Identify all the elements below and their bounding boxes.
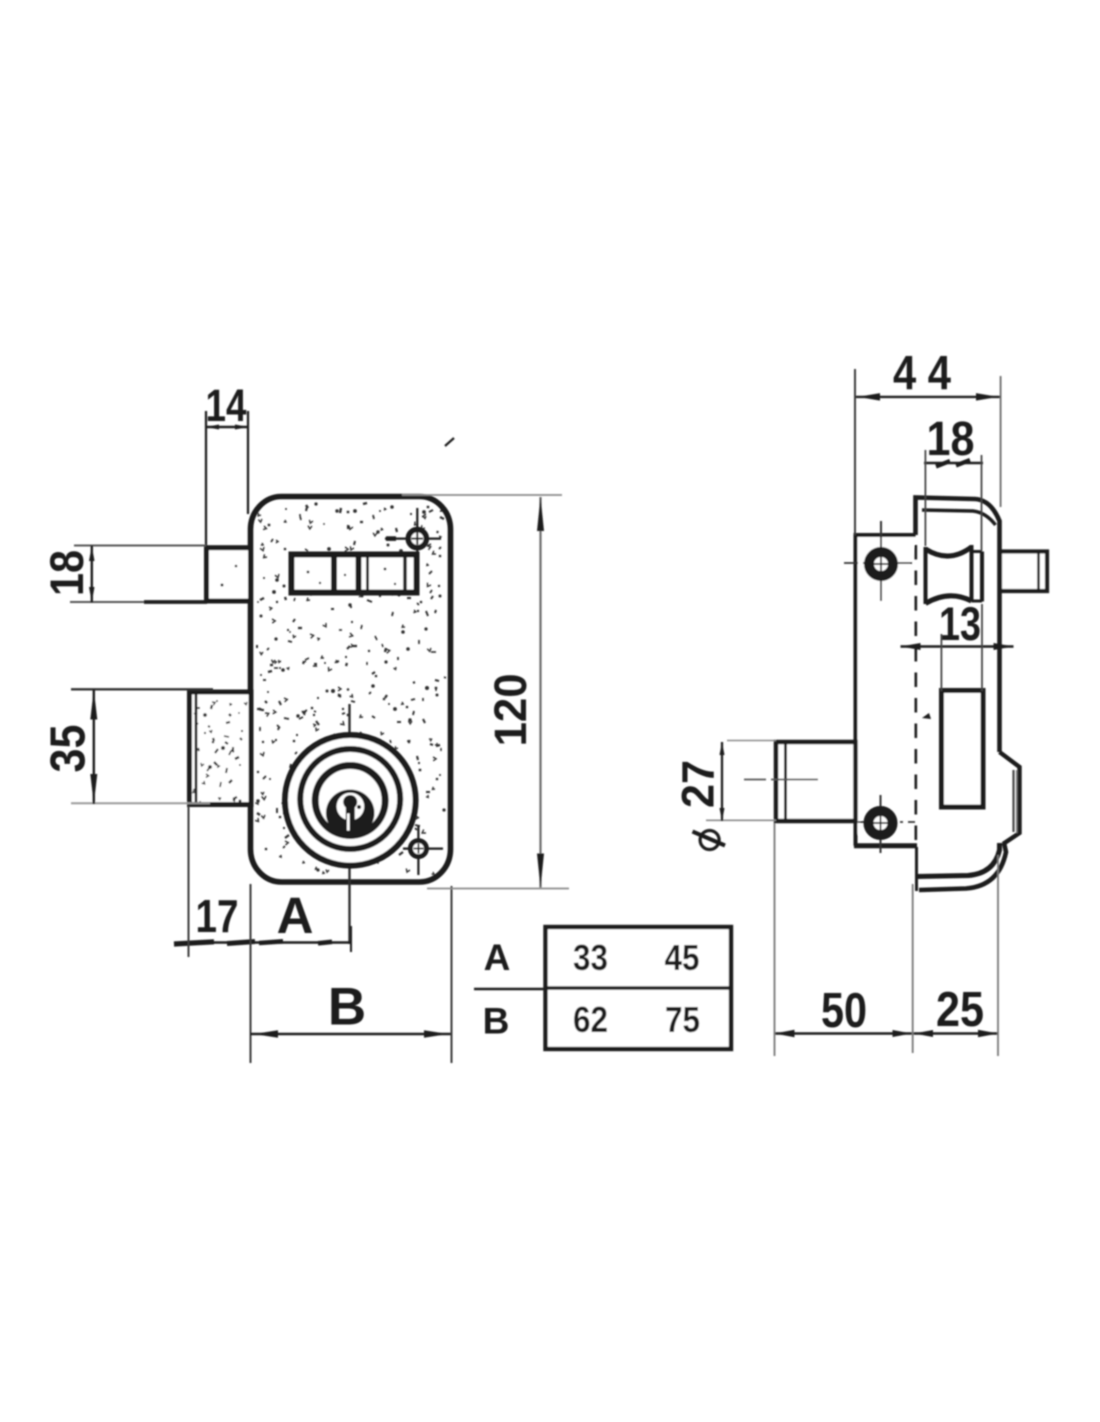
slot divider 2 [356, 555, 362, 592]
dimension 25 extension right [997, 855, 999, 1056]
dimension 50 extension left [774, 823, 776, 1056]
dimension 120 extension top [402, 494, 562, 496]
deadbolt protrusion (35 high) [190, 692, 252, 805]
shared extension line left of B [250, 884, 252, 1063]
svg-text:25: 25 [936, 983, 984, 1037]
latch bolt side view [1000, 552, 1047, 592]
svg-text:18: 18 [927, 413, 975, 466]
svg-text:B: B [328, 978, 366, 1037]
bottom screw side view [869, 811, 893, 835]
dimension 120 line [539, 497, 541, 888]
svg-text:14: 14 [206, 380, 247, 431]
mounting plate side view [856, 535, 916, 846]
keyhole dark disc [326, 790, 375, 837]
dimension 18 left: extension lines [74, 545, 206, 547]
spring latch bump on case [1000, 752, 1020, 844]
svg-text:33: 33 [573, 937, 608, 978]
dimension 13 extensions [940, 634, 942, 691]
cylinder middle circle [300, 749, 400, 849]
dashed center line of case [914, 545, 917, 843]
case left edge below plate [915, 847, 918, 891]
svg-text:4 4: 4 4 [893, 348, 951, 401]
dimension 14 line [206, 426, 248, 429]
dimension 120 extension bottom [427, 888, 569, 890]
key follower (spool) left edge [924, 547, 928, 604]
small mark near dashed line [922, 713, 931, 719]
svg-text:50: 50 [821, 984, 867, 1038]
bottom screw front view [403, 847, 443, 849]
dimension 50/25 line [775, 1032, 999, 1034]
svg-text:27: 27 [673, 760, 724, 808]
cylinder rosette circle [315, 766, 385, 836]
dimension 27 extension bottom [706, 819, 776, 821]
svg-text:62: 62 [573, 999, 608, 1040]
table separator left extension [474, 988, 546, 990]
svg-text:18: 18 [40, 550, 93, 596]
svg-text:17: 17 [196, 890, 239, 942]
svg-text:A: A [277, 887, 314, 944]
table row separator [546, 986, 732, 989]
dimension 18 left line [91, 546, 93, 603]
cylinder side view [776, 742, 856, 821]
dimension 27 line [721, 742, 723, 821]
dimension table box [546, 927, 732, 1049]
dimension 50/25 middle extension [912, 884, 914, 1053]
dimension 17 extension [188, 806, 190, 957]
case top inner line [922, 510, 996, 525]
svg-text:35: 35 [42, 725, 96, 773]
follower bottom concave curve [926, 596, 972, 604]
dimension 44 extension right [1000, 376, 1002, 507]
dimension B line [251, 1033, 452, 1035]
dimension 44 extension left [854, 369, 856, 535]
svg-text:13: 13 [939, 597, 981, 650]
svg-text:A: A [484, 937, 511, 978]
latch bolt protrusion (18 high) [207, 548, 251, 601]
dimension 17/A line [183, 941, 351, 943]
cylinder centerline [744, 779, 766, 781]
svg-text:120: 120 [485, 673, 536, 746]
dimension 44 line [855, 396, 1001, 398]
latch window slot [292, 555, 417, 593]
dimension 35 line [93, 690, 95, 805]
dimension 18 side line [924, 462, 983, 464]
dimension 18 side extensions [924, 450, 926, 546]
top screw side view [869, 552, 893, 576]
lock case profile outline [916, 498, 1000, 753]
lock body front view [251, 497, 451, 883]
follower top concave curve [926, 547, 972, 556]
case bottom outer line [919, 843, 1006, 890]
svg-text:B: B [483, 1001, 510, 1042]
cylinder face line [784, 744, 787, 820]
cylinder outer circle [285, 735, 416, 866]
dimension B extension right [451, 886, 453, 1063]
svg-text:45: 45 [665, 937, 700, 978]
dimension 14 extension right [247, 411, 249, 514]
top screw front view [385, 537, 441, 539]
deadbolt side view [942, 691, 984, 808]
diameter symbol [700, 831, 719, 850]
cylinder vertical centerline [348, 704, 350, 944]
dimension 27 extension top [727, 740, 776, 742]
dimension 13 line [901, 645, 1014, 648]
follower flange [970, 545, 974, 602]
top screw side view centerlines [880, 521, 882, 601]
svg-text:75: 75 [665, 999, 700, 1040]
slot divider 1 [331, 555, 337, 592]
key silhouette [346, 797, 355, 832]
stipple texture front body [255, 502, 446, 874]
dimension 35: extension lines [71, 688, 213, 690]
case bottom edge [917, 843, 1000, 877]
slot divider 3 [366, 555, 369, 592]
stray mark top right of front view [445, 438, 454, 446]
dimension 14 extension left [205, 411, 207, 548]
slot divider 4 [403, 555, 407, 592]
deadbolt face line [195, 694, 198, 802]
bottom screw side view centerlines [880, 795, 882, 853]
